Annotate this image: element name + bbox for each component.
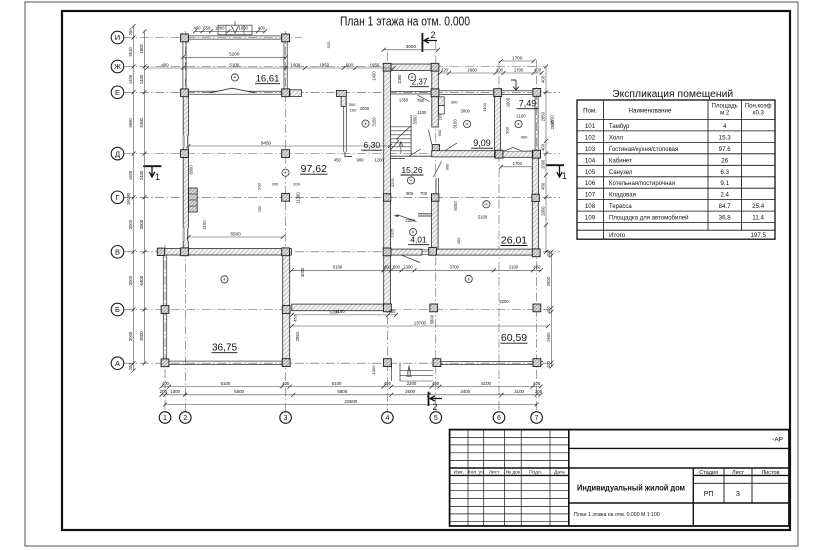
interior dim line bay xyxy=(292,269,541,271)
svg-text:Индивидуальный жилой дом: Индивидуальный жилой дом xyxy=(577,483,685,493)
svg-text:1700: 1700 xyxy=(512,55,523,60)
svg-text:200: 200 xyxy=(257,182,262,189)
svg-text:200: 200 xyxy=(293,181,300,186)
svg-text:Пом.: Пом. xyxy=(583,108,597,115)
svg-text:2600: 2600 xyxy=(405,389,415,394)
svg-text:1400: 1400 xyxy=(372,71,377,81)
svg-text:400: 400 xyxy=(161,62,169,67)
row bubble В xyxy=(111,246,124,259)
interior dim 5500 xyxy=(189,236,283,238)
terrace 36.75 west edge col1 xyxy=(162,255,164,360)
svg-text:Площадь: Площадь xyxy=(712,104,738,110)
svg-text:15,26: 15,26 xyxy=(401,165,423,175)
svg-text:Экспликация помещений: Экспликация помещений xyxy=(612,89,733,100)
door swing tambour exterior xyxy=(402,255,420,262)
bottom dim chain 2 xyxy=(161,394,540,396)
svg-text:2850: 2850 xyxy=(550,120,555,130)
svg-text:2100: 2100 xyxy=(514,389,524,394)
svg-text:2100: 2100 xyxy=(516,114,526,119)
dim 1700 porch xyxy=(501,166,534,168)
right top chain xyxy=(440,72,542,74)
grid piers xyxy=(181,34,189,42)
svg-text:15.3: 15.3 xyxy=(719,134,732,141)
svg-text:1350: 1350 xyxy=(399,98,409,103)
svg-text:11380: 11380 xyxy=(296,192,301,204)
svg-text:108: 108 xyxy=(585,203,596,210)
duct shaft boxes xyxy=(439,97,445,106)
svg-text:1300: 1300 xyxy=(403,265,413,270)
svg-text:1950: 1950 xyxy=(319,62,329,67)
svg-text:700: 700 xyxy=(420,191,428,196)
svg-text:1000: 1000 xyxy=(170,389,180,394)
title block right grid xyxy=(569,447,789,449)
svg-text:Терасса: Терасса xyxy=(609,204,632,210)
section marker 1 left xyxy=(143,165,161,167)
svg-text:2600: 2600 xyxy=(546,332,551,342)
svg-text:Пон.коэф: Пон.коэф xyxy=(745,104,772,110)
svg-text:5100: 5100 xyxy=(229,62,239,67)
svg-text:2: 2 xyxy=(432,402,437,412)
svg-text:200: 200 xyxy=(128,28,133,36)
svg-text:400: 400 xyxy=(546,250,551,258)
svg-text:Котельная/постирочная: Котельная/постирочная xyxy=(609,181,675,187)
svg-text:7: 7 xyxy=(535,415,539,422)
inner stub wall 15.26/4.01 xyxy=(418,213,431,215)
svg-text:750: 750 xyxy=(417,98,425,103)
svg-text:В: В xyxy=(115,248,120,257)
svg-text:400: 400 xyxy=(533,381,541,386)
svg-text:Изм.: Изм. xyxy=(454,469,464,475)
svg-text:А: А xyxy=(115,359,120,368)
section marker 2 top xyxy=(421,33,423,52)
svg-text:5500: 5500 xyxy=(230,231,241,236)
wall row В terrace (cols1-3) xyxy=(162,249,292,255)
row bubble И xyxy=(111,31,124,44)
svg-text:м 2: м 2 xyxy=(720,111,730,117)
svg-text:Б: Б xyxy=(115,305,120,314)
right dim chain lower xyxy=(551,252,553,367)
title block left grid xyxy=(467,430,469,526)
svg-text:5000: 5000 xyxy=(453,201,458,211)
dim 3000 top xyxy=(384,49,439,51)
dim 5200 xyxy=(183,56,286,58)
column bubble 1 xyxy=(159,412,171,424)
door swing 15.26-26.01 xyxy=(434,162,442,178)
canopy bump row Д xyxy=(504,148,522,152)
svg-text:2610: 2610 xyxy=(128,47,133,57)
door swing col5 stair xyxy=(429,130,432,145)
axis lines horizontal xyxy=(124,37,302,39)
svg-text:1650: 1650 xyxy=(239,26,249,31)
svg-text:3000: 3000 xyxy=(461,109,471,114)
window gap col2 Г-В xyxy=(183,228,189,241)
svg-text:5100: 5100 xyxy=(478,215,488,220)
svg-text:25.4: 25.4 xyxy=(752,203,765,210)
column bubble 7 xyxy=(531,412,543,424)
svg-text:900: 900 xyxy=(505,126,510,133)
svg-text:5200: 5200 xyxy=(229,52,240,57)
svg-text:13700: 13700 xyxy=(414,320,427,325)
stair stringer xyxy=(410,115,412,155)
svg-text:5500: 5500 xyxy=(337,389,347,394)
svg-text:1800: 1800 xyxy=(139,43,144,53)
svg-text:20500: 20500 xyxy=(344,399,357,404)
svg-text:400: 400 xyxy=(389,309,397,314)
svg-text:1000: 1000 xyxy=(290,62,300,67)
svg-text:5: 5 xyxy=(434,415,438,422)
svg-text:4: 4 xyxy=(723,123,727,130)
svg-text:520: 520 xyxy=(326,41,331,48)
6.30 pier top xyxy=(336,90,346,96)
svg-text:2600: 2600 xyxy=(546,276,551,286)
svg-text:2800: 2800 xyxy=(540,206,545,216)
svg-text:3000: 3000 xyxy=(139,219,144,229)
svg-text:7,49: 7,49 xyxy=(519,99,537,109)
svg-text:Подл.: Подл. xyxy=(529,469,542,475)
svg-text:3400: 3400 xyxy=(460,389,470,394)
svg-text:84.7: 84.7 xyxy=(719,203,732,210)
row bubble А xyxy=(111,357,124,370)
terrace top edge row И xyxy=(183,35,286,37)
svg-text:5800: 5800 xyxy=(430,314,435,324)
svg-text:107: 107 xyxy=(585,192,596,199)
col7 pier at Г xyxy=(532,194,539,201)
svg-text:600: 600 xyxy=(346,62,354,67)
svg-text:400: 400 xyxy=(384,381,392,386)
col5 wall Е-Д xyxy=(432,95,439,127)
top dim chain above entry xyxy=(195,30,265,32)
col5 pier at Г xyxy=(432,194,439,201)
wall row Ж cols4-5 xyxy=(384,64,439,71)
svg-text:Санузел: Санузел xyxy=(609,170,633,176)
svg-text:900: 900 xyxy=(357,157,365,162)
svg-text:430: 430 xyxy=(456,237,461,244)
svg-text:3300: 3300 xyxy=(139,117,144,127)
svg-text:300: 300 xyxy=(451,99,458,104)
svg-text:План 1 этажа на отм. 0.000 М 1: План 1 этажа на отм. 0.000 М 1:100 xyxy=(574,512,660,518)
svg-text:3000: 3000 xyxy=(128,331,133,341)
row bubble Г xyxy=(111,191,124,204)
6.30 room west thin wall xyxy=(343,97,345,152)
col7 thin wall Е-Д xyxy=(534,96,536,151)
col7 wall Д-В xyxy=(532,151,538,255)
svg-text:450: 450 xyxy=(293,314,298,321)
svg-text:450: 450 xyxy=(334,157,342,162)
svg-text:1200: 1200 xyxy=(374,157,384,162)
svg-text:2100: 2100 xyxy=(509,265,519,270)
svg-text:26,01: 26,01 xyxy=(501,234,527,246)
svg-text:3690: 3690 xyxy=(128,118,133,128)
col4 pier at Г xyxy=(383,194,390,201)
col1 pier at В xyxy=(157,248,164,255)
svg-text:Е: Е xyxy=(115,88,120,97)
wall row Б col3-4 (bay bottom) xyxy=(292,304,391,311)
svg-text:3225: 3225 xyxy=(390,177,395,187)
svg-text:№ док: № док xyxy=(506,469,521,475)
svg-text:1950: 1950 xyxy=(370,62,380,67)
svg-text:1600: 1600 xyxy=(128,170,133,180)
svg-text:400: 400 xyxy=(162,381,170,386)
column bubble 4 xyxy=(382,412,394,424)
svg-text:3150: 3150 xyxy=(453,119,458,129)
wall row Е col5-col7 xyxy=(432,90,541,92)
svg-text:11.4: 11.4 xyxy=(752,215,764,222)
col5 pier at Д xyxy=(432,145,439,152)
door swing 9.09 xyxy=(445,143,457,151)
parking south edge xyxy=(434,360,543,362)
svg-text:3: 3 xyxy=(736,491,740,498)
svg-text:Площадка для автомобилей: Площадка для автомобилей xyxy=(609,215,689,222)
axis lines vertical xyxy=(164,245,166,412)
wall row В col4-col7 (south wall) xyxy=(384,249,422,255)
svg-text:Итого: Итого xyxy=(609,232,626,239)
svg-text:102: 102 xyxy=(585,134,596,141)
svg-text:6: 6 xyxy=(497,415,501,422)
svg-text:3000: 3000 xyxy=(128,219,133,229)
west wall col2 Е-В xyxy=(183,90,188,254)
svg-text:106: 106 xyxy=(585,180,596,187)
row bubble Д xyxy=(111,147,124,160)
svg-text:2100: 2100 xyxy=(202,220,207,230)
svg-text:100: 100 xyxy=(350,107,357,112)
section marker 2 bottom xyxy=(428,392,430,406)
left dim chain outer xyxy=(133,26,135,371)
svg-text:2400: 2400 xyxy=(139,170,144,180)
terrace 36.75 south edge xyxy=(162,360,290,362)
svg-text:18180: 18180 xyxy=(126,192,131,205)
col5 wall Ж-Е xyxy=(432,67,439,95)
svg-text:2680: 2680 xyxy=(468,67,478,72)
svg-text:200: 200 xyxy=(257,205,262,212)
svg-text:9.1: 9.1 xyxy=(720,180,729,187)
stair arrow xyxy=(400,142,402,154)
svg-text:Г: Г xyxy=(115,193,119,202)
svg-text:Тамбур: Тамбур xyxy=(609,124,630,130)
svg-text:2.4: 2.4 xyxy=(720,192,729,199)
svg-text:1000: 1000 xyxy=(371,365,376,375)
svg-text:8450: 8450 xyxy=(261,140,272,145)
svg-text:1800: 1800 xyxy=(506,97,511,107)
col6 wall Е-Д xyxy=(495,95,501,151)
svg-text:3000: 3000 xyxy=(139,331,144,341)
label row emphasized xyxy=(450,467,569,469)
row bubble Б xyxy=(111,303,124,316)
svg-text:400: 400 xyxy=(546,306,551,314)
row bubble Е xyxy=(111,86,124,99)
svg-text:2000: 2000 xyxy=(540,159,545,169)
svg-text:1800: 1800 xyxy=(215,26,225,31)
inner wall 15.26/26.01 partial xyxy=(435,178,437,194)
svg-text:-АР: -АР xyxy=(772,437,783,444)
svg-text:Листов: Листов xyxy=(762,470,780,476)
svg-text:400: 400 xyxy=(521,135,528,140)
svg-text:5100: 5100 xyxy=(332,381,342,386)
svg-text:900: 900 xyxy=(437,129,442,136)
svg-text:3150: 3150 xyxy=(372,116,377,126)
svg-text:2200: 2200 xyxy=(499,299,509,304)
svg-text:Лист: Лист xyxy=(489,469,500,475)
svg-text:6400: 6400 xyxy=(139,275,144,285)
left dim chain inner xyxy=(144,31,146,363)
svg-text:2850: 2850 xyxy=(295,331,300,341)
svg-text:200: 200 xyxy=(128,363,133,371)
svg-text:План 1 этажа на отм. 0.000: План 1 этажа на отм. 0.000 xyxy=(340,14,470,29)
main top dim chain row Ж xyxy=(147,67,394,69)
svg-text:2200: 2200 xyxy=(407,381,417,386)
svg-text:26: 26 xyxy=(721,157,728,164)
svg-text:103: 103 xyxy=(585,146,596,153)
svg-text:х0.3: х0.3 xyxy=(753,111,765,117)
svg-text:2: 2 xyxy=(430,30,435,40)
svg-text:1: 1 xyxy=(562,171,567,181)
svg-text:900: 900 xyxy=(445,163,450,170)
svg-text:200: 200 xyxy=(160,389,168,394)
svg-text:400: 400 xyxy=(540,75,545,83)
svg-text:400: 400 xyxy=(496,67,504,72)
svg-text:105: 105 xyxy=(585,169,596,176)
svg-text:400: 400 xyxy=(258,26,266,31)
door swing into 4.01 xyxy=(398,215,417,222)
svg-text:5100: 5100 xyxy=(329,309,339,314)
svg-text:400: 400 xyxy=(194,26,202,31)
svg-text:6,30: 6,30 xyxy=(364,140,381,150)
wall row Д cols6-7 xyxy=(495,151,541,157)
interior dim line 2 xyxy=(292,314,396,316)
svg-text:Кабинет: Кабинет xyxy=(609,158,632,164)
svg-text:3000: 3000 xyxy=(128,275,133,285)
svg-text:60,59: 60,59 xyxy=(501,332,527,344)
svg-text:РП: РП xyxy=(704,491,714,498)
title block frame xyxy=(450,430,789,526)
svg-text:9,09: 9,09 xyxy=(473,138,491,148)
svg-text:400: 400 xyxy=(282,381,290,386)
svg-text:Стадия: Стадия xyxy=(699,470,718,476)
svg-text:2850: 2850 xyxy=(540,111,545,121)
bottom total dim xyxy=(165,404,537,406)
marker circles xyxy=(231,74,238,81)
svg-text:400: 400 xyxy=(432,381,440,386)
terrace side walls cols 2,3 И-Е xyxy=(182,42,184,89)
svg-text:36,75: 36,75 xyxy=(212,343,237,354)
svg-text:1080: 1080 xyxy=(397,74,402,84)
wall stub right of col3 pier xyxy=(290,90,302,97)
svg-text:1700: 1700 xyxy=(513,161,523,166)
section marker 1 right xyxy=(546,164,564,166)
col3 wall В-А xyxy=(283,249,290,366)
door swing stairs xyxy=(409,149,421,156)
svg-text:650: 650 xyxy=(203,26,211,31)
svg-text:6.3: 6.3 xyxy=(720,169,729,176)
svg-text:Ж: Ж xyxy=(114,62,121,71)
svg-text:1400: 1400 xyxy=(128,74,133,84)
svg-text:97,62: 97,62 xyxy=(301,163,327,175)
column bubble 5 xyxy=(430,412,442,424)
column bubble 2 xyxy=(180,412,192,424)
interior dim 8450 xyxy=(189,145,391,147)
svg-text:1700: 1700 xyxy=(514,67,524,72)
svg-text:5100: 5100 xyxy=(333,265,343,270)
svg-text:2200: 2200 xyxy=(405,218,415,223)
table grid xyxy=(577,100,775,239)
svg-text:1925: 1925 xyxy=(390,228,395,238)
svg-text:5100: 5100 xyxy=(481,381,491,386)
stair break line xyxy=(391,126,411,150)
wall row Е col4-col5 door sill xyxy=(391,91,432,93)
svg-text:3000: 3000 xyxy=(300,267,305,277)
svg-text:Д: Д xyxy=(115,149,120,158)
svg-text:4,01: 4,01 xyxy=(410,235,427,245)
svg-text:200: 200 xyxy=(535,389,543,394)
svg-text:400: 400 xyxy=(384,265,392,270)
entry arrow porch xyxy=(511,80,519,90)
door sill В xyxy=(422,249,432,251)
svg-text:1: 1 xyxy=(155,172,160,182)
door swing 2.37 xyxy=(418,95,430,101)
svg-text:400: 400 xyxy=(540,182,545,190)
exterior steps col4-5 at А xyxy=(391,363,393,381)
column bubble 6 xyxy=(493,412,505,424)
svg-text:400: 400 xyxy=(534,67,542,72)
svg-text:1400: 1400 xyxy=(482,102,487,112)
column bubble 3 xyxy=(280,412,292,424)
svg-text:600: 600 xyxy=(393,265,401,270)
svg-text:И: И xyxy=(115,33,120,42)
svg-text:1: 1 xyxy=(163,415,167,422)
svg-text:101: 101 xyxy=(585,123,596,130)
svg-text:200: 200 xyxy=(272,181,279,186)
svg-text:2000: 2000 xyxy=(360,106,370,111)
svg-text:3300: 3300 xyxy=(412,115,417,125)
svg-text:4: 4 xyxy=(385,415,389,422)
right dim chain xyxy=(545,67,547,252)
svg-text:2: 2 xyxy=(183,415,187,422)
svg-text:3: 3 xyxy=(284,415,288,422)
svg-text:400: 400 xyxy=(540,143,545,151)
svg-text:Наименование: Наименование xyxy=(629,108,672,115)
svg-text:120: 120 xyxy=(439,114,443,120)
bottom dim chain 1 xyxy=(161,386,540,388)
svg-text:109: 109 xyxy=(585,215,596,222)
svg-text:1100: 1100 xyxy=(417,110,427,115)
svg-text:400: 400 xyxy=(534,265,542,270)
wall row Д cols5-6 (9.09 bottom) xyxy=(432,151,501,157)
window gap col2 E-D xyxy=(183,136,189,148)
svg-text:Кол. уч: Кол. уч xyxy=(468,469,484,475)
svg-text:Гостиная/кухня/столовая: Гостиная/кухня/столовая xyxy=(609,147,678,153)
svg-text:1400: 1400 xyxy=(139,74,144,84)
svg-text:Лист: Лист xyxy=(732,470,744,476)
svg-text:Холл: Холл xyxy=(609,135,624,141)
svg-text:16,61: 16,61 xyxy=(256,74,280,85)
chimney block near Г xyxy=(189,188,198,212)
col4 wall Ж-Б xyxy=(384,67,391,311)
svg-text:Дата: Дата xyxy=(554,469,565,475)
svg-text:400: 400 xyxy=(546,360,551,368)
svg-text:3000: 3000 xyxy=(406,44,417,49)
stair treads xyxy=(391,126,411,128)
entry steps top xyxy=(218,25,252,35)
dim 13700 xyxy=(292,325,548,327)
svg-text:8300: 8300 xyxy=(189,165,194,175)
svg-text:Кладовая: Кладовая xyxy=(609,193,636,199)
svg-text:97.6: 97.6 xyxy=(719,146,732,153)
col5 wall Г-В xyxy=(432,194,439,250)
svg-text:3700: 3700 xyxy=(450,265,460,270)
wall under stairs row Д col4-5 xyxy=(391,155,432,157)
svg-text:900: 900 xyxy=(406,191,414,196)
wall row Е cols2-3 window band xyxy=(189,90,282,92)
svg-text:104: 104 xyxy=(585,157,596,164)
